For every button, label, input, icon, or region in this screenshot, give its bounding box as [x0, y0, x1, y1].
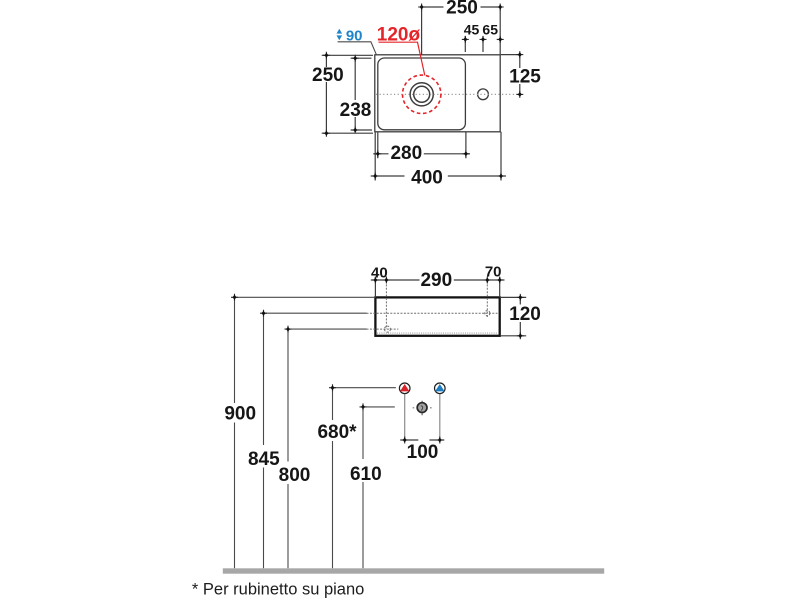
svg-text:845: 845 — [248, 449, 280, 470]
svg-text:250: 250 — [312, 65, 344, 86]
svg-text:610: 610 — [350, 464, 382, 485]
svg-text:70: 70 — [485, 263, 502, 280]
svg-text:120ø: 120ø — [377, 24, 421, 45]
svg-text:680*: 680* — [317, 422, 357, 443]
svg-text:238: 238 — [340, 100, 372, 121]
svg-text:900: 900 — [224, 403, 256, 424]
svg-text:125: 125 — [509, 66, 541, 87]
svg-text:65: 65 — [482, 21, 498, 37]
svg-text:120: 120 — [509, 304, 541, 325]
svg-text:800: 800 — [279, 465, 311, 486]
svg-text:90: 90 — [346, 27, 363, 44]
svg-text:100: 100 — [407, 442, 439, 463]
svg-text:250: 250 — [446, 0, 478, 18]
svg-text:280: 280 — [390, 143, 422, 164]
svg-text:400: 400 — [411, 167, 443, 188]
svg-text:45: 45 — [464, 21, 480, 37]
svg-text:40: 40 — [371, 264, 388, 281]
svg-text:290: 290 — [420, 270, 452, 291]
svg-text:* Per rubinetto su piano: * Per rubinetto su piano — [192, 581, 364, 599]
